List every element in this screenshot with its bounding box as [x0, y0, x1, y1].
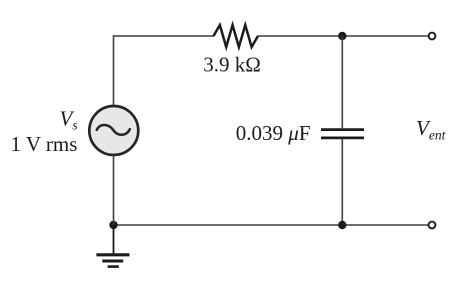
ground: bottom bar — [108, 265, 119, 268]
wire: source bottom to bottom rail — [113, 155, 115, 225]
ground: middle bar — [102, 260, 123, 263]
wire: bottom horizontal — [114, 224, 429, 226]
svg-text:3.9 kΩ: 3.9 kΩ — [203, 53, 261, 77]
node: bottom-middle junction dot — [338, 221, 346, 229]
capacitor C bottom plate — [321, 136, 364, 139]
svg-text:Vent: Vent — [416, 116, 447, 143]
capacitor C (0.039 uF) top plate — [321, 128, 364, 131]
source Vs: AC source circle — [89, 106, 138, 155]
ground: stem — [113, 225, 115, 254]
svg-text:0.039 μF: 0.039 μF — [236, 121, 311, 145]
node: bottom-left junction dot — [109, 221, 117, 229]
source Vs: sine symbol — [97, 125, 130, 135]
ground: top bar — [96, 253, 129, 256]
wire: capacitor branch upper — [341, 36, 343, 128]
resistor R (3.9 kOhm) zigzag — [214, 25, 258, 47]
terminal: top-right open circle — [429, 33, 436, 40]
svg-text:Vs: Vs — [60, 107, 78, 133]
node: top junction dot — [338, 32, 346, 40]
wire: left rail vertical (top corner down to source top) — [113, 35, 115, 106]
wire: top-left horizontal (left rail to resistor) — [114, 35, 215, 37]
svg-text:1 V rms: 1 V rms — [11, 132, 78, 156]
wire: capacitor branch lower — [341, 139, 343, 225]
terminal: bottom-right open circle — [429, 222, 436, 229]
wire: resistor to top-right terminal — [258, 35, 429, 37]
